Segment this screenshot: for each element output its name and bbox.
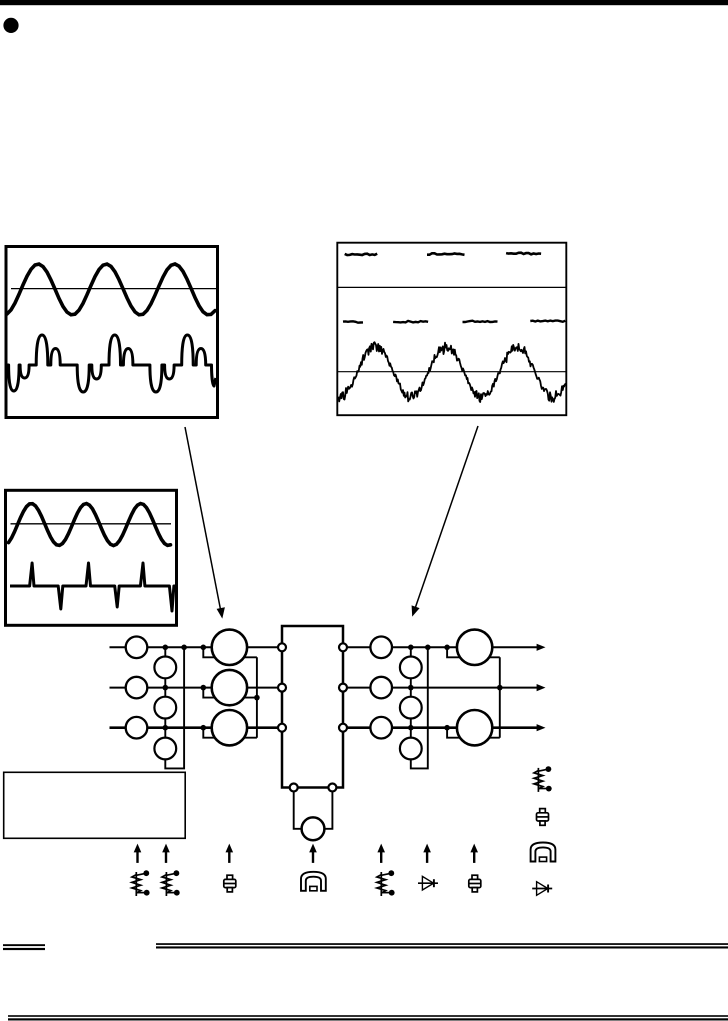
wire wattmeter potential bracket W1 (input) — [203, 647, 257, 657]
device under test (unit box) — [282, 626, 343, 788]
box1 zero axis (upper trace) — [11, 288, 216, 290]
box3 voltage sine wave — [9, 504, 171, 546]
wire DC-link meter leads — [294, 788, 333, 829]
junction dots input side — [163, 645, 260, 731]
wattmeter W4 (output phase U) — [457, 630, 492, 665]
voltmeter V3 (input T-return) — [154, 738, 176, 760]
flow arrow (to input resistor pair 2) — [162, 844, 170, 863]
ammeter A6 (output phase W) — [370, 717, 392, 739]
rheostat R3 — [377, 870, 395, 896]
SECTION: footer rules — [3, 943, 728, 1020]
box3 frame — [6, 490, 177, 625]
voltmeter V4 (output U-V) — [400, 657, 422, 679]
terminal v2 — [339, 684, 347, 692]
wire wattmeter potential bracket W5 (output) — [447, 728, 500, 738]
SECTION: oscillogram box 1 (top left) — [6, 247, 218, 418]
voltmeter V5 (output V-W) — [400, 697, 422, 719]
box2 trace1 dashes — [345, 254, 378, 255]
box1 frame — [6, 247, 218, 418]
fuse F3 (right column) — [537, 809, 549, 826]
SECTION: circuit schematic — [110, 626, 546, 840]
ammeter A4 (output phase U) — [370, 637, 392, 659]
box1 distorted current trace baseline + pulses — [8, 335, 216, 392]
voltmeter V1 (input R-S) — [154, 657, 176, 679]
wire wattmeter potential bracket W2 (input) — [203, 688, 257, 698]
wire phase U (output side) — [343, 646, 538, 648]
wire wattmeter potential bracket W3 (input) — [203, 728, 257, 738]
terminal v1 — [339, 643, 347, 651]
terminal v3 — [339, 724, 347, 732]
junction dots output side — [408, 645, 503, 731]
wire wattmeter potential bracket W4 (output) — [447, 647, 500, 657]
voltmeter V6 (output W-return) — [400, 738, 422, 760]
callout arrow from box2 to output-side circuit — [415, 426, 479, 610]
ammeter A2 (input phase S) — [126, 677, 148, 699]
footnote rule (long) — [156, 943, 728, 945]
wattmeter W5 (output phase W) — [457, 710, 492, 745]
ammeter A3 (input phase T) — [126, 717, 148, 739]
box2 axis line 2 — [337, 371, 566, 373]
callout arrow from box1 to input-side wattmeter — [185, 427, 221, 612]
SECTION: oscillogram box 3 (middle left) — [6, 490, 177, 625]
terminal p2 (bottom) — [328, 784, 336, 792]
arrowhead phase W output — [537, 724, 546, 731]
arrowhead phase V output — [537, 684, 546, 691]
flow arrow (to bottom meter) — [309, 844, 317, 863]
fuse F2 — [469, 875, 481, 892]
wattmeter W1 (input phase R) — [212, 630, 247, 665]
diode D1 — [418, 876, 438, 890]
wire phase S (input side) — [110, 687, 283, 689]
flow arrow (to output diode) — [423, 844, 431, 863]
wire potential bus (input) — [256, 657, 258, 737]
diode D2 (right column) — [532, 882, 552, 896]
terminal p1 (bottom) — [290, 784, 298, 792]
flow arrow (to output fuse) — [470, 844, 478, 863]
SECTION: pointer arrows — [185, 426, 478, 619]
flow arrow (to output rheostat) — [377, 844, 385, 863]
top border bar — [0, 0, 728, 5]
terminal u1 — [278, 643, 286, 651]
terminal u3 — [278, 724, 286, 732]
footnote rule (short, left) — [3, 944, 45, 946]
SECTION: oscillogram box 2 (top right) — [337, 243, 566, 416]
magnet core M2 (right column) — [531, 843, 556, 862]
flow arrow (to input resistor pair 1) — [134, 844, 142, 863]
flow arrow (to input wattmeter group) — [226, 844, 234, 863]
box1 voltage sine wave — [7, 264, 215, 315]
magnet core M1 — [301, 872, 326, 891]
arrowhead phase U output — [537, 644, 546, 651]
box3 zero axis (upper trace) — [11, 523, 172, 525]
ammeter A5 (output phase V) — [370, 677, 392, 699]
box2 axis line 1 — [337, 286, 566, 288]
page bottom rule — [8, 1015, 728, 1017]
heading bullet — [3, 18, 18, 33]
rheostat R4 (right column) — [534, 766, 552, 792]
wire voltmeter chain (input) — [165, 647, 184, 768]
meter M (bottom of unit) — [302, 817, 325, 840]
wire phase T (input side, bold) — [110, 726, 283, 729]
rheostat R1 — [132, 870, 150, 896]
rheostat R2 — [162, 870, 180, 896]
wire phase V (output side) — [343, 687, 538, 689]
wattmeter W3 (input phase T) — [212, 710, 247, 745]
wire potential bus (output) — [499, 657, 501, 737]
fuse F1 — [224, 875, 236, 892]
wattmeter W2 (input phase S) — [212, 670, 247, 705]
ammeter A1 (input phase R) — [126, 637, 148, 659]
terminal u2 — [278, 684, 286, 692]
label box (bottom left, empty) — [4, 772, 186, 838]
wire phase R (input side) — [110, 646, 283, 648]
wire voltmeter chain (output) — [411, 647, 428, 768]
wire phase W (output side, bold) — [343, 726, 538, 729]
box2 noisy current sine — [339, 342, 566, 402]
box2 trace2 dashes — [343, 321, 363, 322]
box2 frame — [337, 243, 566, 416]
box3 spike current trace — [10, 563, 177, 611]
voltmeter V2 (input S-T) — [154, 697, 176, 719]
